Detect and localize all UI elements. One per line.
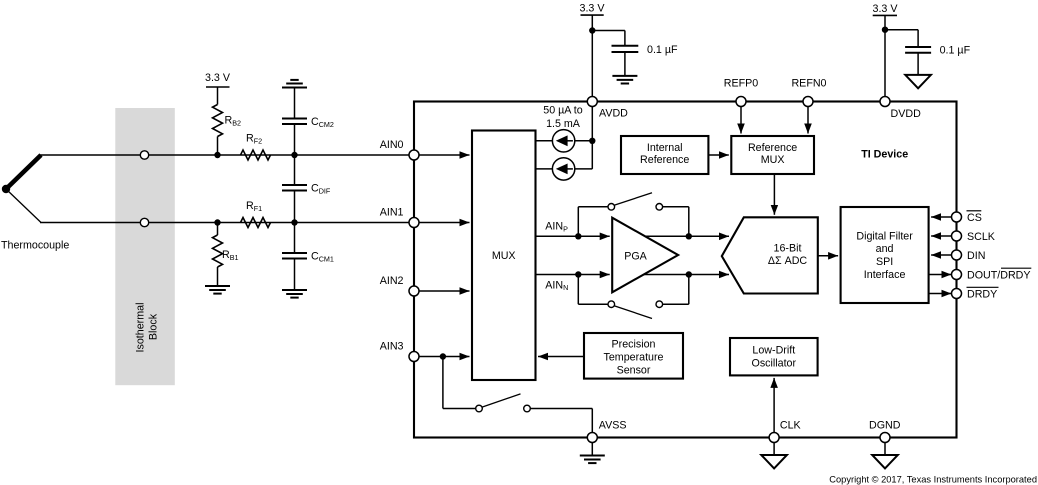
svg-text:Sensor: Sensor [617,364,651,376]
svg-text:50 µA to: 50 µA to [543,104,582,116]
svg-text:DRDY: DRDY [967,289,997,301]
svg-text:SPI: SPI [876,256,893,268]
svg-text:1.5 mA: 1.5 mA [546,118,581,130]
svg-text:Reference: Reference [748,142,797,154]
svg-text:Thermocouple: Thermocouple [1,240,69,252]
svg-text:Block: Block [148,313,160,340]
svg-text:Interface: Interface [864,269,906,281]
svg-text:ΔΣ ADC: ΔΣ ADC [768,255,808,267]
svg-text:16-Bit: 16-Bit [774,243,802,255]
svg-text:CLK: CLK [780,419,802,431]
svg-text:TI Device: TI Device [861,149,908,161]
svg-text:3.3 V: 3.3 V [580,3,606,15]
svg-text:Copyright © 2017, Texas Instru: Copyright © 2017, Texas Instruments Inco… [829,474,1037,484]
svg-text:AVSS: AVSS [599,420,627,432]
svg-text:AIN3: AIN3 [380,341,404,353]
svg-text:MUX: MUX [492,250,516,262]
svg-text:Precision: Precision [612,339,656,351]
svg-text:3.3 V: 3.3 V [873,3,899,15]
svg-text:DOUT/DRDY: DOUT/DRDY [967,269,1031,281]
svg-text:Isothermal: Isothermal [135,303,147,353]
svg-text:AIN1: AIN1 [380,207,404,219]
svg-text:Reference: Reference [640,154,689,166]
svg-text:AIN2: AIN2 [380,275,404,287]
svg-text:DGND: DGND [869,419,901,431]
svg-text:DIN: DIN [967,250,985,262]
svg-text:AIN0: AIN0 [380,139,404,151]
svg-text:DVDD: DVDD [891,108,922,120]
svg-text:REFN0: REFN0 [791,77,826,89]
svg-text:0.1 µF: 0.1 µF [940,44,971,56]
svg-text:AVDD: AVDD [599,108,628,120]
svg-text:MUX: MUX [761,154,785,166]
svg-text:Oscillator: Oscillator [752,357,797,369]
svg-text:Digital Filter: Digital Filter [856,230,913,242]
svg-text:Temperature: Temperature [604,351,664,363]
svg-text:SCLK: SCLK [967,231,996,243]
svg-text:Internal: Internal [647,142,683,154]
svg-text:Low-Drift: Low-Drift [752,345,795,357]
svg-text:0.1 µF: 0.1 µF [647,44,678,56]
svg-text:PGA: PGA [624,251,647,263]
svg-text:CS: CS [967,212,982,224]
svg-text:REFP0: REFP0 [724,77,759,89]
svg-text:and: and [876,243,894,255]
svg-text:3.3 V: 3.3 V [205,72,231,84]
